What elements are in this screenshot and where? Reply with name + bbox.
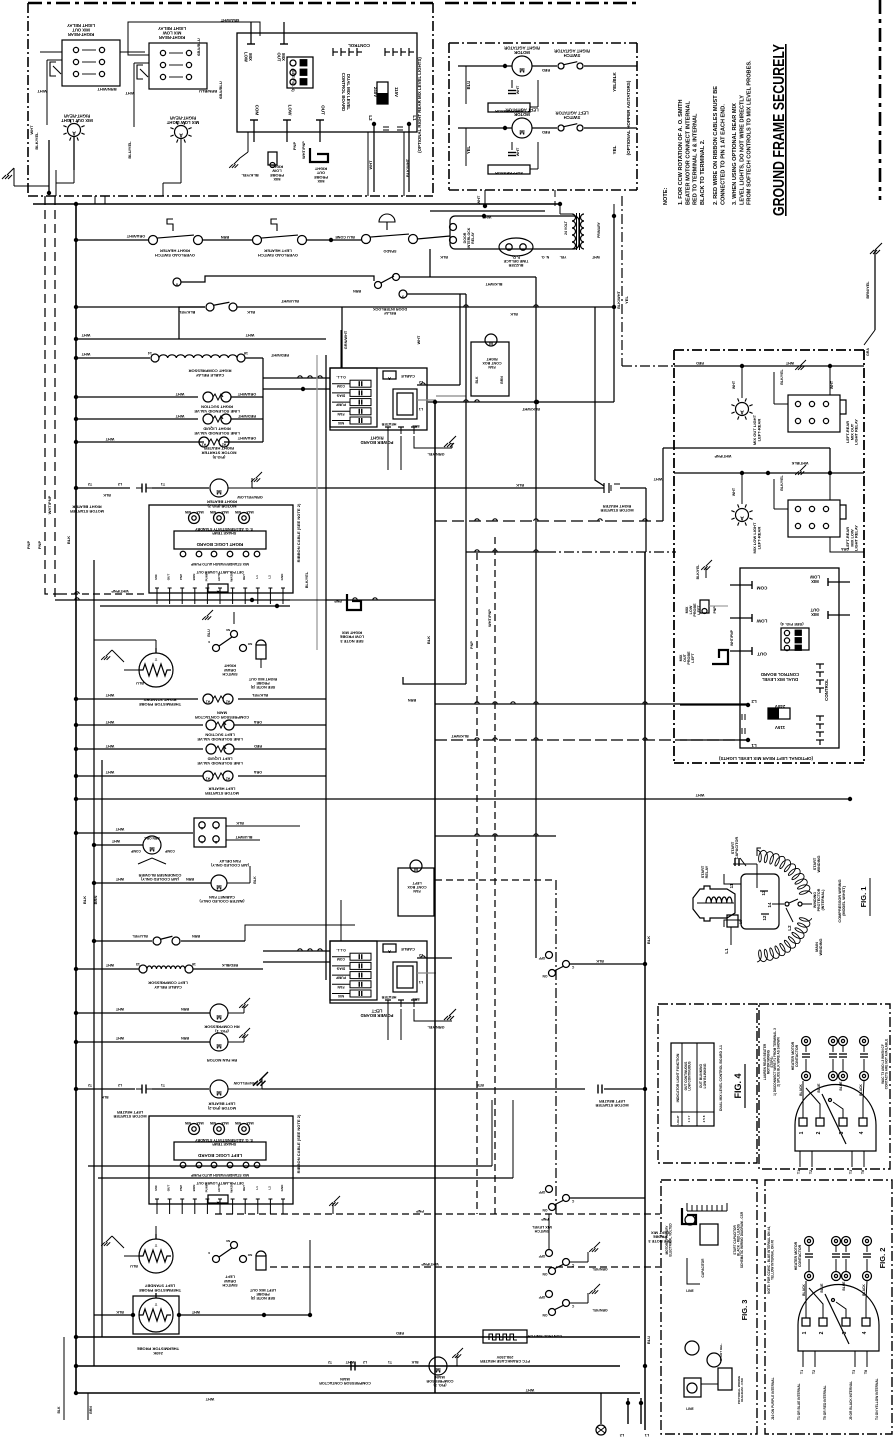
svg-text:A1: A1 [206, 700, 210, 704]
svg-text:1 4 7: 1 4 7 [687, 1115, 691, 1122]
svg-text:FIG. 4: FIG. 4 [733, 1073, 743, 1098]
svg-text:COM: COM [337, 957, 345, 961]
svg-text:LOW: LOW [810, 575, 820, 580]
svg-text:RED: RED [696, 361, 704, 365]
svg-text:BLK: BLK [57, 1406, 61, 1414]
svg-text:MIX STANDBY/WASH AUTO PUMP: MIX STANDBY/WASH AUTO PUMP [190, 1173, 249, 1177]
svg-text:L2: L2 [368, 115, 373, 121]
svg-text:PNP: PNP [416, 1209, 424, 1213]
svg-text:GRN/WHT: GRN/WHT [344, 330, 348, 349]
svg-text:F. O.: F. O. [512, 255, 520, 259]
svg-text:MIN: MIN [209, 510, 216, 514]
svg-text:MIN: MIN [184, 1121, 191, 1125]
svg-text:WHT: WHT [732, 380, 736, 389]
svg-text:M: M [489, 341, 493, 346]
svg-text:GROUND FRAME SECURELY: GROUND FRAME SECURELY [771, 44, 788, 216]
svg-text:T2: T2 [88, 1083, 92, 1087]
svg-text:WHT: WHT [175, 414, 184, 418]
svg-text:DUAL MIX LEVEL CONTROL BOARD J: DUAL MIX LEVEL CONTROL BOARD J-1 [719, 1045, 723, 1111]
svg-text:WHT: WHT [105, 770, 114, 774]
svg-text:COM: COM [255, 105, 260, 116]
svg-text:L2: L2 [363, 1360, 367, 1364]
svg-text:14: 14 [148, 351, 152, 355]
svg-text:PNP: PNP [470, 641, 474, 649]
svg-text:O.L.L.: O.L.L. [336, 948, 346, 952]
svg-text:BLU/WHT: BLU/WHT [235, 835, 253, 839]
svg-text:LIGHT RELAY: LIGHT RELAY [158, 26, 186, 31]
svg-text:BRN/YEL: BRN/YEL [865, 281, 870, 299]
svg-text:WHT: WHT [653, 477, 662, 481]
svg-text:WHT/PNP: WHT/PNP [302, 141, 306, 159]
svg-text:BLK/YEL: BLK/YEL [34, 132, 39, 150]
svg-text:MIN: MIN [234, 510, 241, 514]
svg-text:T1: T1 [161, 1083, 165, 1087]
svg-text:LEFT HEATER: LEFT HEATER [117, 1110, 143, 1114]
svg-text:RIGHT MIX: RIGHT MIX [341, 630, 362, 635]
svg-text:WHT/PNP: WHT/PNP [47, 495, 52, 514]
svg-text:16: 16 [192, 962, 196, 966]
svg-text:WHT: WHT [111, 839, 120, 843]
svg-text:PUMP: PUMP [335, 403, 346, 407]
svg-text:BLK: BLK [66, 536, 71, 544]
svg-text:T8: T8 [864, 1370, 868, 1374]
svg-text:BLU/YEL: BLU/YEL [131, 934, 147, 938]
svg-text:L1: L1 [419, 407, 423, 411]
svg-text:BRN: BRN [181, 1007, 189, 1011]
svg-text:RIGHT SUCTION: RIGHT SUCTION [201, 405, 233, 410]
svg-text:MAX: MAX [246, 510, 254, 514]
svg-text:(SEE FIG. 4): (SEE FIG. 4) [780, 622, 804, 627]
svg-text:PNP: PNP [292, 142, 297, 151]
svg-text:LOW CONTINUOUS: LOW CONTINUOUS [688, 1061, 692, 1090]
svg-text:GRN/YEL: GRN/YEL [592, 1308, 607, 1312]
svg-text:A1: A1 [206, 777, 210, 781]
svg-text:BEATER MOTOR CONNECT INTERNAL: BEATER MOTOR CONNECT INTERNAL [685, 101, 691, 205]
svg-text:T1: T1 [800, 1370, 804, 1374]
svg-text:FIG. 2: FIG. 2 [878, 1248, 887, 1269]
svg-text:WINDING: WINDING [819, 938, 823, 955]
svg-text:BLK/YEL: BLK/YEL [780, 368, 784, 384]
svg-text:RED TO TERMINAL 4 & INTERNAL: RED TO TERMINAL 4 & INTERNAL [693, 113, 699, 205]
svg-text:4: 4 [862, 1331, 868, 1334]
svg-text:BLU: BLU [136, 681, 144, 685]
svg-text:9: 9 [402, 295, 404, 299]
svg-text:WHT: WHT [368, 160, 373, 170]
svg-text:HEATER: HEATER [381, 995, 396, 999]
svg-text:RED: RED [396, 1331, 404, 1335]
svg-text:WHT/PNP: WHT/PNP [421, 1262, 439, 1266]
svg-text:BLK: BLK [411, 1360, 419, 1364]
svg-text:LEFT-REAR: LEFT-REAR [756, 419, 761, 442]
svg-text:24 VOLT: 24 VOLT [564, 220, 568, 235]
svg-text:14: 14 [767, 902, 772, 907]
svg-text:RH COMPRESSOR: RH COMPRESSOR [204, 1025, 239, 1030]
svg-text:LEFT-REAR: LEFT-REAR [756, 527, 761, 550]
svg-text:L1: L1 [419, 980, 423, 984]
svg-text:RELAY: RELAY [705, 865, 709, 878]
svg-text:L1: L1 [751, 743, 757, 748]
svg-text:WHT: WHT [345, 1360, 354, 1364]
svg-text:FAN: FAN [337, 412, 344, 416]
svg-text:BLK: BLK [440, 255, 448, 259]
svg-text:2 5 8: 2 5 8 [702, 1115, 706, 1122]
svg-text:BRN ORA: BRN ORA [144, 836, 160, 840]
svg-text:M: M [149, 845, 154, 852]
svg-text:T2: T2 [88, 482, 92, 486]
svg-text:WHT: WHT [105, 963, 114, 967]
svg-text:WHT: WHT [732, 487, 736, 496]
svg-text:MAIN: MAIN [435, 1375, 445, 1379]
svg-text:FIG. 1: FIG. 1 [859, 887, 868, 908]
svg-text:T8: T8 [861, 1170, 865, 1174]
svg-text:GRN/YELLOW: GRN/YELLOW [237, 495, 263, 499]
svg-text:BRN/WHT: BRN/WHT [97, 87, 117, 92]
svg-text:BLK/YEL: BLK/YEL [696, 565, 700, 580]
svg-text:BLK: BLK [236, 821, 244, 825]
svg-text:START REL.: START REL. [719, 1343, 723, 1361]
svg-text:4: 4 [859, 1131, 865, 1134]
svg-text:DIAGRAM - CSR: DIAGRAM - CSR [740, 1377, 744, 1401]
svg-text:L1: L1 [724, 948, 729, 954]
svg-text:CONDENSER BLOWER: CONDENSER BLOWER [138, 873, 181, 877]
svg-text:GND: GND [280, 573, 284, 581]
svg-text:M: M [216, 1013, 221, 1020]
svg-text:PNP: PNP [179, 1185, 183, 1191]
svg-text:WHT: WHT [115, 877, 124, 881]
svg-text:M: M [216, 488, 221, 495]
svg-text:BRN: BRN [412, 424, 420, 428]
svg-text:ORA/WHT: ORA/WHT [237, 436, 256, 440]
svg-text:LINE: LINE [686, 1289, 694, 1293]
svg-text:RIGHT AGITATOR: RIGHT AGITATOR [504, 45, 540, 50]
svg-text:WHT: WHT [417, 335, 421, 344]
svg-text:M: M [216, 1089, 221, 1096]
svg-text:RIBBON CABLE (SEE NOTE 2): RIBBON CABLE (SEE NOTE 2) [296, 1114, 301, 1173]
svg-text:2: 2 [819, 1331, 825, 1334]
svg-text:OUT: OUT [167, 574, 171, 581]
svg-text:2) SPLICE BLK WIRE AS SHOWN: 2) SPLICE BLK WIRE AS SHOWN [777, 1037, 781, 1087]
svg-text:13: 13 [136, 962, 140, 966]
svg-text:BLK: BLK [247, 310, 255, 314]
svg-text:A2: A2 [226, 700, 230, 704]
svg-text:(OPTIONAL RIGHT REAR MIX LEVEL: (OPTIONAL RIGHT REAR MIX LEVEL LIGHTS) [417, 57, 422, 153]
svg-text:BLK: BLK [426, 636, 431, 644]
svg-text:DET POLARITY LOWER OUT: DET POLARITY LOWER OUT [196, 570, 244, 574]
svg-text:A: A [740, 409, 744, 415]
svg-text:ON: ON [542, 974, 548, 978]
svg-text:MAIN: MAIN [340, 1377, 350, 1381]
svg-text:BRN: BRN [500, 376, 504, 384]
svg-text:LIGHT RELAY: LIGHT RELAY [67, 23, 95, 28]
svg-text:RIGHT BEATER: RIGHT BEATER [72, 505, 101, 510]
svg-text:GRA: GRA [866, 348, 870, 356]
svg-text:BLU: BLU [646, 1336, 651, 1344]
svg-text:RIGHT STANDBY: RIGHT STANDBY [143, 698, 176, 703]
svg-text:BLK/YEL: BLK/YEL [178, 310, 195, 314]
svg-text:WHT: WHT [37, 89, 47, 94]
svg-text:CABLE: CABLE [401, 374, 415, 379]
svg-text:WHT: WHT [105, 693, 114, 697]
svg-text:BLK/YEL: BLK/YEL [780, 474, 784, 490]
svg-text:BRN: BRN [412, 997, 420, 1001]
svg-text:WHT: WHT [81, 333, 90, 337]
svg-text:OUT: OUT [757, 652, 767, 657]
svg-text:ORA: ORA [254, 770, 263, 774]
svg-text:A: A [388, 376, 391, 381]
svg-text:BLK: BLK [510, 312, 518, 316]
svg-text:WHT: WHT [785, 361, 794, 365]
svg-text:MIN: MIN [184, 510, 191, 514]
svg-text:LOW: LOW [756, 619, 767, 624]
svg-text:LEFT BEATER: LEFT BEATER [208, 1102, 235, 1107]
svg-text:BLK/YEL: BLK/YEL [251, 693, 268, 697]
svg-text:16: 16 [244, 351, 248, 355]
svg-text:WHT/PNP: WHT/PNP [714, 454, 731, 458]
svg-text:LEFT SUCTION: LEFT SUCTION [205, 733, 235, 738]
svg-text:RED/WHT: RED/WHT [270, 353, 289, 357]
svg-text:MIX: MIX [337, 994, 344, 998]
svg-text:T1 OR BLUE INTERNAL: T1 OR BLUE INTERNAL [797, 1383, 801, 1420]
svg-text:A: A [388, 949, 391, 954]
svg-text:L2: L2 [419, 380, 423, 384]
svg-text:FIG. 3: FIG. 3 [740, 1300, 749, 1321]
svg-text:RIGHT HEATER: RIGHT HEATER [204, 446, 234, 451]
svg-text:WHT: WHT [81, 352, 90, 356]
svg-text:PRIMARY: PRIMARY [597, 221, 601, 237]
svg-text:OFF: OFF [539, 1295, 546, 1299]
svg-text:RED: RED [254, 744, 262, 748]
svg-text:RIGHT LIQUID: RIGHT LIQUID [203, 427, 231, 432]
svg-text:LEFT: LEFT [225, 1275, 235, 1279]
svg-text:ORA/WHT: ORA/WHT [237, 392, 256, 396]
svg-text:MAX: MAX [221, 1121, 229, 1125]
svg-text:T1: T1 [797, 1170, 801, 1174]
svg-text:WHT: WHT [105, 744, 114, 748]
svg-text:WHT: WHT [516, 147, 520, 156]
svg-text:T9 OR RED INTERNAL: T9 OR RED INTERNAL [823, 1385, 827, 1420]
svg-text:MIN: MIN [234, 1121, 241, 1125]
svg-text:BLK: BLK [116, 1310, 124, 1314]
svg-text:BLK/WHT: BLK/WHT [521, 407, 539, 411]
svg-text:T2: T2 [328, 1360, 332, 1364]
svg-text:CONTROL BOARD: CONTROL BOARD [761, 672, 800, 677]
svg-text:CONTACTOR: CONTACTOR [798, 1244, 802, 1267]
svg-text:SPADO: SPADO [383, 249, 396, 253]
svg-text:ON: ON [542, 1208, 548, 1212]
svg-text:BLK/YEL: BLK/YEL [305, 571, 309, 588]
svg-text:WHT: WHT [695, 793, 704, 797]
svg-text:BLK/WHT: BLK/WHT [451, 734, 469, 738]
svg-text:PNP: PNP [179, 574, 183, 580]
svg-text:1. FOR CCW ROTATION OF A. O. S: 1. FOR CCW ROTATION OF A. O. SMITH [678, 99, 684, 205]
svg-text:WHT/PNP: WHT/PNP [488, 609, 492, 627]
svg-text:LOW: LOW [244, 52, 249, 62]
svg-text:CONNECTED TO PIN 1 AT EACH END: CONNECTED TO PIN 1 AT EACH END. [720, 104, 726, 205]
svg-text:COM: COM [756, 586, 767, 591]
svg-text:SUPPRESSOR: SUPPRESSOR [495, 171, 523, 176]
svg-text:BRN: BRN [192, 1185, 196, 1192]
svg-text:RIGHT HEATER: RIGHT HEATER [603, 504, 632, 508]
svg-text:SCHEMATIC WIRING DIAGRAM - CSR: SCHEMATIC WIRING DIAGRAM - CSR [740, 1211, 744, 1268]
svg-text:YELLOW INTERNAL ON #6: YELLOW INTERNAL ON #6 [770, 1240, 774, 1280]
svg-text:MAX: MAX [196, 510, 204, 514]
svg-text:WHT: WHT [525, 1388, 534, 1392]
svg-text:M: M [414, 867, 418, 872]
svg-text:BRN: BRN [93, 896, 98, 905]
svg-text:ORA: ORA [254, 720, 263, 724]
svg-text:RED: RED [542, 68, 550, 72]
svg-text:DIAG: DIAG [336, 393, 345, 397]
svg-text:GND: GND [280, 1184, 284, 1192]
svg-text:PNP: PNP [26, 541, 31, 550]
svg-text:M: M [216, 1042, 221, 1049]
svg-text:RED/BLK: RED/BLK [222, 963, 239, 967]
svg-text:LEFT MIX OUT: LEFT MIX OUT [249, 1288, 276, 1292]
svg-text:WHT: WHT [115, 1036, 124, 1040]
svg-text:RIGHT HEATER: RIGHT HEATER [160, 249, 190, 254]
svg-text:T3: T3 [849, 1170, 853, 1174]
svg-text:BLACK TO TERMINAL 2.: BLACK TO TERMINAL 2. [700, 139, 706, 205]
svg-text:BLK/YEL: BLK/YEL [241, 173, 259, 178]
svg-text:DOOR INTERLOCK: DOOR INTERLOCK [373, 307, 407, 311]
svg-text:L2: L2 [787, 925, 792, 931]
svg-text:MAIN: MAIN [217, 711, 227, 716]
svg-text:OUT: OUT [321, 105, 326, 115]
svg-text:WHT: WHT [175, 392, 184, 396]
svg-text:WHT: WHT [115, 1007, 124, 1011]
svg-text:RED: RED [542, 130, 550, 134]
svg-text:YEL: YEL [560, 255, 567, 259]
svg-text:O.L.L.: O.L.L. [336, 375, 346, 379]
svg-text:CONTACTOR: CONTACTOR [795, 1044, 799, 1067]
svg-text:RIGHT: RIGHT [270, 164, 283, 169]
svg-text:LOW: LOW [288, 105, 293, 116]
svg-text:GRN/YEL: GRN/YEL [592, 1267, 607, 1271]
svg-text:COM: COM [337, 384, 345, 388]
svg-text:BLU: BLU [466, 81, 471, 90]
svg-text:BRN: BRN [186, 877, 194, 881]
svg-text:BLK: BLK [596, 959, 604, 963]
svg-text:CABINET FAN: CABINET FAN [209, 895, 235, 899]
svg-text:240V: 240V [373, 87, 378, 97]
svg-text:ON: ON [542, 1313, 548, 1317]
svg-text:M: M [519, 128, 524, 135]
svg-text:T1: T1 [161, 482, 165, 486]
svg-text:WHT: WHT [516, 85, 520, 94]
svg-text:OUT: OUT [810, 608, 819, 613]
svg-text:115V: 115V [775, 725, 785, 730]
svg-text:CAPACITOR: CAPACITOR [701, 1258, 705, 1278]
svg-text:RIGHT: RIGHT [370, 435, 384, 440]
svg-text:BLK/WHT: BLK/WHT [405, 158, 410, 177]
svg-text:ORA/WHT: ORA/WHT [126, 234, 145, 238]
svg-text:A: A [216, 1201, 219, 1206]
svg-text:YEL/BLK: YEL/BLK [612, 71, 617, 91]
svg-text:NO: NO [247, 642, 252, 646]
svg-text:BLACK: BLACK [802, 1284, 806, 1296]
svg-text:RIGHT COMPRESSOR: RIGHT COMPRESSOR [188, 369, 231, 374]
svg-text:LEFT AGITATOR: LEFT AGITATOR [555, 110, 588, 115]
svg-text:LIGHT RELAY: LIGHT RELAY [854, 525, 859, 551]
svg-text:PNP: PNP [541, 1217, 549, 1221]
svg-text:WHT: WHT [191, 1310, 200, 1314]
svg-text:(INTERNAL): (INTERNAL) [821, 889, 825, 911]
svg-text:2: 2 [816, 1131, 822, 1134]
svg-text:WHT: WHT [830, 380, 834, 389]
svg-text:LEFT LIQUID: LEFT LIQUID [207, 757, 232, 762]
svg-text:T3: T3 [852, 1370, 856, 1374]
svg-text:MAX: MAX [246, 1121, 254, 1125]
svg-text:BLK: BLK [646, 936, 651, 944]
svg-text:DET POLARITY LOWER OUT: DET POLARITY LOWER OUT [196, 1181, 244, 1185]
svg-text:CABLE: CABLE [401, 947, 415, 952]
svg-text:WHT: WHT [115, 827, 124, 831]
svg-text:MIX: MIX [154, 574, 158, 579]
svg-text:BLK: BLK [101, 1095, 109, 1099]
svg-text:LEVEL LIGHTS, DO NOT WIRE DIRE: LEVEL LIGHTS, DO NOT WIRE DIRECTLY [739, 95, 745, 205]
svg-text:LEFT HEATER: LEFT HEATER [264, 249, 292, 254]
svg-text:PNP: PNP [713, 606, 717, 614]
svg-text:RIGHT MIX OUT: RIGHT MIX OUT [248, 677, 277, 681]
svg-text:LEFT AGITATOR: LEFT AGITATOR [505, 107, 538, 112]
svg-text:BLK: BLK [103, 493, 111, 497]
svg-text:115V: 115V [394, 87, 399, 97]
svg-text:6BA/BLU: 6BA/BLU [218, 81, 223, 99]
svg-text:WHT: WHT [105, 437, 114, 441]
svg-text:2. RED WIRE ON RIBBON CABLES M: 2. RED WIRE ON RIBBON CABLES MUST BE [713, 86, 719, 205]
svg-text:RH FAN MOTOR: RH FAN MOTOR [207, 1058, 237, 1063]
svg-text:BRN: BRN [192, 574, 196, 581]
svg-text:CONTROL: CONTROL [824, 679, 829, 701]
svg-text:OUT: OUT [277, 53, 282, 62]
svg-text:RIGHT LOGIC BOARD: RIGHT LOGIC BOARD [196, 542, 243, 547]
svg-text:COMP: COMP [130, 849, 141, 853]
svg-text:WINDING: WINDING [817, 855, 821, 872]
svg-text:(MODEL W/HST): (MODEL W/HST) [842, 885, 846, 916]
svg-text:HEATER: HEATER [381, 422, 396, 426]
svg-text:NO: NO [247, 1253, 252, 1257]
svg-text:M: M [519, 66, 524, 73]
svg-text:PNP: PNP [37, 541, 42, 550]
svg-text:CONTACTS ARE NOT AVAILABLE: CONTACTS ARE NOT AVAILABLE [884, 1039, 888, 1089]
svg-text:RELAY: RELAY [471, 232, 475, 244]
svg-text:RIGHT AGITATOR: RIGHT AGITATOR [554, 48, 590, 53]
svg-text:BLU/WHT: BLU/WHT [280, 299, 298, 303]
svg-text:RIBBON CABLE (SEE NOTE 2): RIBBON CABLE (SEE NOTE 2) [296, 503, 301, 562]
svg-text:LEFT BEATER: LEFT BEATER [599, 1099, 625, 1103]
svg-text:BRN: BRN [181, 1036, 189, 1040]
svg-text:RIGHT-REAR: RIGHT-REAR [170, 115, 196, 120]
svg-text:BLU CONE: BLU CONE [335, 235, 355, 239]
svg-text:BLK: BLK [516, 483, 524, 487]
svg-text:L2: L2 [267, 1186, 271, 1190]
svg-text:T2: T2 [812, 1370, 816, 1374]
svg-text:RIGHT BEATER: RIGHT BEATER [207, 500, 237, 505]
svg-text:BRN/BLU: BRN/BLU [199, 89, 217, 94]
svg-text:MIN: MIN [209, 1121, 216, 1125]
svg-text:FAN DELAY: FAN DELAY [219, 859, 241, 863]
svg-text:L2: L2 [267, 575, 271, 579]
svg-text:BLACK: BLACK [799, 1084, 803, 1096]
svg-text:BRN: BRN [221, 235, 230, 239]
svg-text:RED/WHT: RED/WHT [237, 414, 256, 418]
svg-text:RIGHT-REAR: RIGHT-REAR [64, 113, 90, 118]
svg-text:L2: L2 [620, 1433, 625, 1437]
svg-text:MAX: MAX [221, 510, 229, 514]
svg-text:YEL: YEL [624, 296, 629, 304]
svg-text:OFF: OFF [539, 956, 546, 960]
svg-text:WHT: WHT [477, 195, 481, 204]
